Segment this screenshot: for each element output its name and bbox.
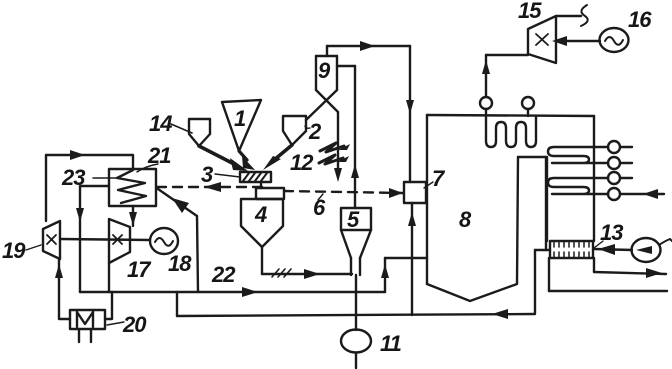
flue gas outlet duct with arrow xyxy=(594,258,666,278)
svg-text:11: 11 xyxy=(380,331,402,356)
svg-text:18: 18 xyxy=(168,251,192,276)
air heater 13 (hatched) xyxy=(550,220,623,258)
svg-text:14: 14 xyxy=(149,111,172,136)
convective shaft left wall xyxy=(546,157,548,241)
svg-text:19: 19 xyxy=(2,238,26,263)
cyclone 9 discharge crossing to hopper 2 xyxy=(306,90,337,120)
svg-text:22: 22 xyxy=(211,262,236,287)
wire: down from top run into mixer 7 xyxy=(409,46,411,182)
cyclone 5 xyxy=(341,207,371,275)
wire: riser from line 22 with up arrow xyxy=(381,258,389,292)
svg-text:4: 4 xyxy=(254,202,267,227)
wire: top run from cyclone 9 to mixer 7 xyxy=(327,45,410,47)
mixer 7 xyxy=(404,166,446,203)
svg-text:16: 16 xyxy=(628,7,652,32)
duct: vessel 8 outlet down beside heater xyxy=(535,250,550,313)
wire: cyclone 5 dust leg down to pump 11 xyxy=(355,275,357,330)
hopper 2 xyxy=(283,116,322,145)
steam exhaust with break squiggle xyxy=(556,5,588,26)
funnel 1 xyxy=(222,100,261,151)
coil 21 inside heat exchanger xyxy=(117,143,171,203)
fan 10 xyxy=(632,238,672,262)
wire: turbine 17 exhaust down to line 22 xyxy=(108,263,110,292)
steam line to turbine 15 xyxy=(486,54,528,56)
hot air duct below heater 13 to line 22 riser xyxy=(549,258,667,291)
gasifier vessel 8 xyxy=(427,115,594,301)
wire: side feed header to gasifier base xyxy=(385,257,427,259)
wire: cyclone 5 gas outlet up to cyclone 9 xyxy=(337,66,359,208)
cooler 20 with M xyxy=(70,310,147,342)
wire: cyclone 9 outlet to top run xyxy=(326,46,328,56)
wire: riser into mixer 7 from bottom header xyxy=(408,203,416,315)
line 22 (hot gas return) xyxy=(80,262,385,297)
gas turbine 17 xyxy=(109,219,152,282)
convective shaft right wall xyxy=(593,116,595,241)
svg-text:9: 9 xyxy=(318,58,331,83)
wire: heat exchanger to gas turbine 17 inlet xyxy=(129,206,137,226)
arrow down on cyclone 9 dust leg xyxy=(334,168,342,182)
bottom return header with left arrow xyxy=(177,309,535,319)
compressor 19 xyxy=(2,221,60,263)
svg-text:7: 7 xyxy=(432,166,446,191)
diagonal feed into heat exchanger 23 xyxy=(158,189,198,292)
gas recycle zigzag 12 xyxy=(290,143,350,175)
wire: line 22 junction down into cooler 20 xyxy=(105,292,112,319)
grate 3 (hatched box) xyxy=(201,162,271,187)
drum valve circle left xyxy=(480,55,492,109)
svg-text:1: 1 xyxy=(234,106,246,131)
drum valve circle right xyxy=(522,97,534,109)
svg-text:5: 5 xyxy=(347,207,360,232)
inner convective partition of vessel 8 xyxy=(518,157,546,250)
water circle 1 xyxy=(608,141,632,153)
svg-text:21: 21 xyxy=(147,143,171,168)
water circle 2 xyxy=(608,157,632,169)
wire: hopper 4 discharge to cyclone 5 leg, with break hatch and arrow xyxy=(262,269,352,279)
water circle 3 xyxy=(608,172,632,184)
feed arrow from funnel 1 to grate 3 xyxy=(239,151,255,170)
steam turbine 15 xyxy=(518,0,556,63)
svg-text:2: 2 xyxy=(308,119,322,144)
svg-text:15: 15 xyxy=(518,0,542,23)
svg-text:3: 3 xyxy=(201,162,213,187)
shaft turbine 15 to generator 16 xyxy=(552,36,600,46)
cyclone 9 dust leg crossing xyxy=(316,90,338,176)
wire: hopper 4 discharge down xyxy=(261,247,263,274)
economizer coil B xyxy=(548,178,608,194)
heat exchanger box 23 xyxy=(61,165,156,206)
svg-text:20: 20 xyxy=(122,312,147,337)
wire: grate 3 to hopper 4 neck xyxy=(260,182,262,188)
left loop: compressor discharge to heat exchanger xyxy=(46,150,133,221)
hopper 4 xyxy=(241,188,284,247)
generator 18 xyxy=(150,228,192,276)
wire: heat exchanger air out, down past shaft to line 22 xyxy=(76,186,109,292)
svg-text:8: 8 xyxy=(459,207,472,232)
feed arrow from hopper 2 to grate 3 xyxy=(263,145,292,170)
cyclone 9 xyxy=(316,56,337,90)
svg-text:17: 17 xyxy=(127,257,152,282)
hopper 14 xyxy=(149,111,210,146)
generator 16 xyxy=(600,7,653,52)
superheater coil in vessel 8 top xyxy=(486,109,536,147)
air line from fan into air heater 13 xyxy=(594,244,632,255)
dashed gas line right with arrow into mixer 7 xyxy=(284,188,403,220)
svg-text:12: 12 xyxy=(290,150,314,175)
slurry pump 11 xyxy=(341,330,402,369)
shaft: compressor 19, turbine 17, generator 18 xyxy=(60,239,150,240)
feed arrow from hopper 14 to grate 3 xyxy=(199,146,248,171)
water circle 4 with feed arrow xyxy=(608,188,664,200)
drop from line 22 to bottom header xyxy=(176,292,178,316)
dashed gas line left with arrow into heat exchanger 23 xyxy=(157,182,268,192)
air intake into compressor 19 xyxy=(55,259,70,319)
economizer coil A xyxy=(548,147,608,163)
